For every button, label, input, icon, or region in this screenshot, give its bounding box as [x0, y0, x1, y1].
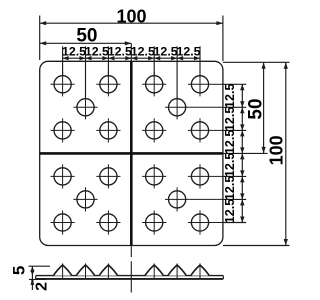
svg-text:12.5: 12.5 — [223, 199, 237, 224]
svg-text:12.5: 12.5 — [223, 84, 237, 109]
svg-text:12.5: 12.5 — [223, 130, 237, 155]
svg-text:12.5: 12.5 — [223, 153, 237, 178]
svg-text:2: 2 — [33, 282, 50, 291]
svg-text:50: 50 — [76, 25, 97, 46]
svg-text:100: 100 — [116, 6, 146, 26]
svg-text:12.5: 12.5 — [62, 45, 86, 59]
svg-text:12.5: 12.5 — [223, 176, 237, 201]
svg-text:12.5: 12.5 — [85, 45, 109, 59]
svg-text:100: 100 — [266, 135, 286, 165]
svg-text:12.5: 12.5 — [108, 45, 132, 59]
svg-text:12.5: 12.5 — [176, 45, 200, 59]
svg-text:5: 5 — [10, 266, 29, 275]
svg-text:50: 50 — [245, 98, 266, 119]
svg-text:12.5: 12.5 — [223, 107, 237, 132]
svg-text:12.5: 12.5 — [131, 45, 155, 59]
svg-text:12.5: 12.5 — [154, 45, 178, 59]
